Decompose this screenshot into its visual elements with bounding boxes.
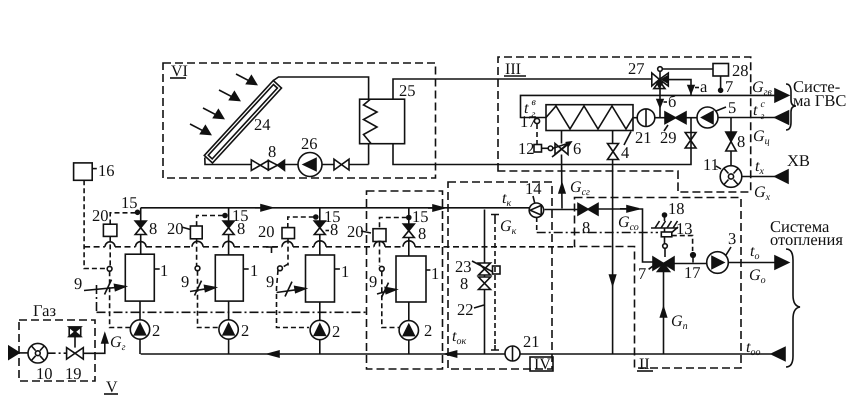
svg-text:25: 25	[399, 81, 416, 100]
arrow t_g^s return	[775, 111, 789, 124]
label 18	[668, 199, 685, 218]
svg-text:17: 17	[520, 112, 537, 131]
label 2 g3	[332, 322, 340, 341]
valve 8 solar (gate)	[251, 160, 268, 171]
svg-text:24: 24	[254, 115, 271, 134]
label 27	[628, 59, 645, 78]
wire branch a	[668, 80, 694, 96]
valve 8 g2	[223, 221, 234, 235]
actuator 13 hatch	[651, 221, 678, 228]
label 8'	[582, 218, 590, 237]
svg-text:7: 7	[638, 264, 646, 283]
boiler group 3: riser	[319, 208, 321, 255]
boiler group 1: riser	[140, 208, 142, 254]
wire boiler3 to pump	[319, 302, 321, 320]
label 21	[635, 128, 652, 147]
label Sistema otopleniya	[770, 217, 843, 249]
svg-text:1: 1	[250, 261, 258, 280]
svg-text:7: 7	[725, 77, 733, 96]
wire 20 to junction circle g3 (dashed)	[287, 239, 289, 266]
svg-text:16: 16	[98, 161, 115, 180]
sun arrow 4	[190, 124, 211, 135]
svg-text:26: 26	[301, 134, 318, 153]
wire boiler2 to pump	[228, 301, 230, 320]
svg-text:4: 4	[621, 143, 629, 162]
label 20 g2	[167, 219, 184, 238]
label 2 g1	[152, 321, 160, 340]
wire cold water XB	[742, 176, 775, 178]
svg-text:ХВ: ХВ	[787, 151, 810, 170]
wire DHW outlet nook (t_g^v)	[521, 95, 776, 117]
label 4	[621, 143, 629, 162]
svg-text:8: 8	[737, 132, 745, 151]
wire 16 drop (dashed)	[84, 180, 107, 268]
wire 20 to junction circle g1 (dashed)	[109, 236, 111, 266]
valve 27 stem and pilot circle	[658, 67, 663, 80]
section box III	[498, 57, 751, 192]
svg-text:12: 12	[518, 139, 535, 158]
sensor 7 stem and dot	[719, 76, 723, 92]
svg-text:1: 1	[431, 264, 439, 283]
actuator box of 23	[493, 266, 501, 274]
wire G_p makeup riser	[663, 272, 665, 355]
sensor dot 15 g4	[407, 216, 411, 220]
label t_o	[750, 243, 759, 262]
sensor T on supply (G_k)	[491, 215, 499, 220]
box 20 g3	[282, 228, 295, 239]
label 1 g3	[335, 268, 340, 270]
label 20 g3	[258, 222, 275, 241]
junction circle g3	[278, 266, 283, 271]
label Sistema GVS	[793, 77, 846, 110]
svg-text:19: 19	[65, 364, 82, 383]
three-way valve 7	[653, 257, 674, 272]
svg-text:10: 10	[36, 364, 53, 383]
sensor dot 15 g2	[223, 214, 227, 218]
label 3 with tick	[726, 247, 731, 255]
valve 8 bypass	[479, 277, 491, 290]
label 1 g1	[154, 268, 159, 270]
label 15 g4	[412, 207, 429, 226]
pump 2 g4	[399, 321, 418, 340]
label 26	[301, 134, 318, 153]
arrow supply flow 1	[255, 205, 272, 211]
svg-text:2: 2	[152, 321, 160, 340]
bypass wire 23/8	[484, 210, 486, 355]
wire collector bottom pipe	[205, 144, 369, 165]
box 20 g1	[103, 224, 117, 236]
wire solar return pipe	[393, 132, 691, 165]
label 9 g1	[74, 274, 82, 293]
svg-text:9: 9	[266, 272, 274, 291]
svg-text:ма ГВС: ма ГВС	[793, 91, 846, 110]
svg-text:1: 1	[160, 261, 168, 280]
label 11	[703, 155, 719, 174]
valve 8' on supply (filled)	[578, 204, 598, 216]
label 16	[92, 168, 97, 170]
boiler 4	[396, 256, 426, 302]
svg-text:отопления: отопления	[770, 230, 843, 249]
label t_ok	[452, 328, 466, 347]
label 15 g3	[324, 207, 341, 226]
solar collector 24	[204, 81, 281, 164]
actuator 13 box	[661, 227, 678, 237]
label G_p	[671, 313, 688, 332]
label 25	[399, 81, 416, 100]
boiler group 4 (reserve): riser	[408, 208, 410, 256]
wire pump2 to return	[228, 339, 230, 354]
label 24	[254, 115, 271, 134]
svg-text:22: 22	[457, 300, 474, 319]
label G_so	[618, 214, 639, 233]
wire boiler1 to pump	[139, 301, 141, 320]
valve 4	[608, 144, 619, 160]
heat exchanger 25	[360, 99, 405, 144]
svg-text:17: 17	[684, 263, 701, 282]
svg-text:14: 14	[525, 179, 542, 198]
label G_k	[500, 218, 517, 237]
valve 8 g1	[135, 221, 146, 235]
label t_g^s	[753, 99, 766, 122]
wire valve7 to pump3	[674, 263, 707, 265]
label 22 with tick	[457, 300, 474, 319]
box 20 g4	[373, 229, 386, 242]
pump 2 g1	[130, 320, 149, 339]
arrow G_sg up	[559, 184, 565, 194]
gas control drop (dash-dot)	[96, 285, 98, 312]
label a	[700, 77, 708, 96]
sensor dot 18	[663, 213, 667, 221]
control line 14 to actuator 13 (dash-dot)	[537, 232, 658, 234]
wire HX III primary inlet G_sg riser	[561, 131, 564, 209]
label b	[668, 92, 676, 111]
label G_sg	[570, 179, 590, 198]
wire meter to valve19 (dash-dot)	[48, 352, 67, 354]
label 9 g2	[181, 272, 189, 291]
label 8 g2	[237, 219, 245, 238]
label G_g	[110, 334, 126, 353]
svg-text:8: 8	[237, 219, 245, 238]
svg-text:21: 21	[523, 332, 540, 351]
arrow supply flow 3 (G_so)	[620, 206, 639, 212]
boiler 1	[125, 254, 154, 301]
junction circle g1	[107, 266, 112, 271]
valve 23 (regulator)	[472, 261, 493, 275]
wire boiler4 to pump	[408, 302, 410, 321]
svg-text:2: 2	[241, 321, 249, 340]
burner 9 g3	[277, 282, 306, 297]
wire pump3 to heating system	[728, 262, 775, 264]
brace heating system	[786, 249, 800, 367]
wire 15-20 g1 (dashed)	[110, 213, 135, 224]
label 8 bypass	[460, 274, 468, 293]
sensor T on control bus	[266, 247, 277, 253]
box 28	[713, 64, 729, 77]
wire pump5 to right exit t_g^s	[718, 117, 775, 119]
box 20 g2	[190, 226, 202, 239]
sensor dot 15 g3	[314, 215, 318, 219]
label 15 g2	[232, 206, 249, 225]
control bus dashed with hops	[84, 246, 574, 248]
label t_x	[755, 158, 764, 177]
label t_oo	[746, 339, 760, 358]
svg-text:9: 9	[74, 274, 82, 293]
check valve 8 DHW	[726, 118, 736, 152]
label G_c circulation	[753, 128, 770, 147]
label 23	[455, 257, 472, 276]
gas filter	[69, 327, 81, 348]
valve solar right	[334, 159, 349, 170]
section box VI (solar)	[163, 63, 436, 178]
label 13	[676, 219, 693, 238]
svg-text:15: 15	[121, 193, 138, 212]
stem 13 to valve 7	[663, 237, 668, 257]
label III	[505, 61, 521, 78]
svg-text:11: 11	[703, 155, 719, 174]
svg-text:9: 9	[181, 272, 189, 291]
label 8 g1	[149, 219, 157, 238]
burner 9 g4	[377, 283, 396, 298]
gas meter 10	[28, 343, 48, 363]
arrow t_o out	[775, 256, 789, 269]
svg-text:г: г	[761, 111, 765, 122]
label IV boxed	[530, 357, 553, 371]
sensor 17' impulse (dashed)	[672, 236, 693, 251]
label G_o	[749, 267, 766, 286]
label 7	[649, 264, 656, 270]
section box II (staircase)	[575, 198, 742, 369]
svg-text:8: 8	[268, 142, 276, 161]
label 1 g2	[243, 268, 248, 270]
label 17	[520, 112, 537, 131]
burner 9 g1	[84, 280, 125, 295]
arrow G_gv outlet	[775, 89, 789, 102]
svg-text:29: 29	[660, 128, 677, 147]
label G_gv	[752, 79, 772, 98]
valve 8 g3	[314, 221, 325, 235]
sun arrow 1	[236, 74, 257, 85]
pump 26	[298, 153, 322, 177]
arrow return flow 1	[268, 351, 279, 357]
wire valve29 to pump5	[686, 117, 697, 119]
label G_x	[754, 184, 771, 203]
arrow G_p up	[661, 308, 667, 318]
label 29	[660, 128, 677, 147]
label 9 g4	[369, 272, 377, 291]
sensor dot 15 g1	[136, 210, 140, 214]
wire supply header	[141, 208, 653, 262]
wire sensor 17 to box 12 (dashed)	[536, 124, 538, 144]
sensor 17' circle	[691, 253, 696, 263]
wire gas out with G_g arrow	[83, 334, 108, 354]
label 17'	[684, 263, 701, 282]
label 10	[36, 364, 53, 383]
wire HX25 secondary to valve 27	[393, 79, 652, 99]
svg-text:27: 27	[628, 59, 645, 78]
sun arrow 3	[203, 108, 224, 119]
section box reserve boiler	[367, 191, 443, 369]
check valve solar	[268, 160, 284, 170]
label 5 with tick	[716, 107, 726, 111]
box 16	[74, 163, 93, 180]
pump 2 g3	[310, 320, 329, 339]
pump 2 g2	[219, 320, 238, 339]
hop arcs on control bus	[105, 241, 415, 247]
wire collector top to HX25	[273, 77, 368, 99]
wire return header	[141, 353, 771, 355]
label V	[106, 379, 118, 396]
svg-text:20: 20	[92, 206, 109, 225]
svg-text:8: 8	[460, 274, 468, 293]
valve 29 (filled)	[664, 112, 686, 131]
svg-text:20: 20	[167, 219, 184, 238]
svg-text:IV: IV	[534, 356, 551, 373]
svg-text:2: 2	[424, 321, 432, 340]
label 7 near 28	[725, 77, 733, 96]
label 19	[65, 364, 82, 383]
wire branch b	[657, 87, 663, 118]
wire pump3 to return	[319, 340, 321, 354]
boiler 3	[306, 255, 335, 302]
svg-text:8: 8	[418, 224, 426, 243]
junction circle g2	[195, 266, 200, 271]
sun arrow 2	[219, 90, 240, 101]
svg-text:2: 2	[332, 322, 340, 341]
svg-text:20: 20	[258, 222, 275, 241]
svg-text:Газ: Газ	[33, 301, 56, 320]
wire pump1 to return	[139, 339, 141, 354]
arrow down on drop	[610, 275, 616, 285]
section box V (gas)	[19, 320, 95, 381]
svg-text:18: 18	[668, 199, 685, 218]
label 8 DHW	[737, 132, 745, 151]
wire junction to pump g4 (dashed)	[382, 271, 399, 327]
label 2 g4	[424, 321, 432, 340]
svg-text:в: в	[532, 97, 537, 108]
meter 21' on return	[505, 346, 520, 361]
wire junction to pump g2 (dashed)	[198, 271, 219, 328]
heat exchanger III shell	[546, 105, 633, 131]
boiler group 2: riser	[228, 208, 230, 255]
label Gaz	[33, 301, 56, 320]
svg-text:28: 28	[732, 61, 749, 80]
svg-text:5: 5	[728, 98, 736, 117]
label 8 g4	[418, 224, 426, 243]
label 15 g1	[121, 193, 138, 212]
wire junction to pump g1 (dashed)	[110, 271, 130, 327]
wire G_k impulse line (dashed)	[494, 219, 496, 345]
pump 14 (mixing)	[529, 196, 543, 217]
junction circle g4	[379, 266, 384, 271]
valve 6 (control)	[552, 142, 571, 157]
svg-text:21: 21	[635, 128, 652, 147]
meter 21 (circle)	[637, 109, 655, 127]
bypass valve between 29 and 5	[685, 118, 696, 148]
sensor T bottom	[491, 345, 499, 350]
wire 12 to valve 6 with hinge circle	[542, 143, 570, 151]
wire 15-20 g2 (dashed)	[197, 216, 223, 227]
sensor 17 circle	[534, 118, 539, 123]
svg-text:8: 8	[582, 218, 590, 237]
pump 5	[697, 107, 718, 128]
svg-text:8: 8	[149, 219, 157, 238]
arrow supply flow 2	[428, 205, 444, 211]
water meter 11	[720, 151, 742, 187]
label t_k	[502, 190, 511, 209]
section box IV	[448, 182, 552, 369]
wire pump4 to return	[408, 340, 410, 354]
arrow t_oo in	[772, 348, 786, 361]
brace GVS system	[786, 84, 796, 130]
box 12	[534, 145, 542, 153]
tick HX box to label 4	[624, 132, 631, 146]
label 8 g3	[330, 220, 338, 239]
gas manifold (dash-dot)	[97, 311, 367, 313]
label VI	[171, 63, 188, 80]
label 6	[573, 139, 581, 158]
svg-text:б: б	[668, 92, 676, 111]
label XB	[787, 151, 810, 170]
wire 15-20 g3 (dashed)	[288, 217, 314, 228]
label II	[639, 356, 650, 373]
svg-text:3: 3	[728, 229, 736, 248]
svg-text:9: 9	[369, 272, 377, 291]
label 21'	[523, 332, 540, 351]
wire 14 sensor drop (dashed)	[536, 217, 538, 233]
wire pilot to box 28	[662, 68, 713, 70]
wire HX III to meter 21	[633, 117, 637, 119]
label 2 g2	[241, 321, 249, 340]
svg-text:а: а	[700, 77, 708, 96]
gas inlet arrow	[9, 346, 28, 359]
label 28	[732, 61, 749, 80]
arrow return flow 2	[446, 351, 457, 357]
burner 9 g2	[190, 281, 215, 296]
label 1 g4	[426, 269, 430, 271]
valve 8 g4	[403, 224, 414, 238]
arrow XB inlet	[775, 170, 788, 183]
three-way valve 27	[652, 73, 669, 89]
label 14	[525, 179, 542, 198]
label t_g^v	[524, 97, 537, 120]
valve 19	[67, 348, 84, 360]
wire 20 to junction circle g4 (dashed)	[379, 242, 381, 267]
svg-text:1: 1	[341, 262, 349, 281]
wire meter21 to valve29	[655, 117, 665, 119]
svg-text:8: 8	[330, 220, 338, 239]
svg-text:6: 6	[573, 139, 581, 158]
wire junction to pump g3 (dashed)	[277, 270, 310, 328]
pump 3	[707, 252, 729, 274]
label 20 g1	[92, 206, 109, 225]
label 9 g3	[266, 272, 274, 291]
svg-text:t: t	[753, 102, 758, 119]
label 20 g4	[347, 222, 364, 241]
wire 15-20 g4 (dashed)	[380, 218, 407, 229]
label 12	[518, 139, 535, 158]
svg-text:с: с	[761, 99, 766, 110]
wire 20 to junction circle g2 (dashed)	[196, 239, 198, 266]
boiler 2	[215, 255, 243, 301]
wire HX III primary outlet drop	[612, 131, 614, 355]
label 8 solar	[268, 142, 276, 161]
